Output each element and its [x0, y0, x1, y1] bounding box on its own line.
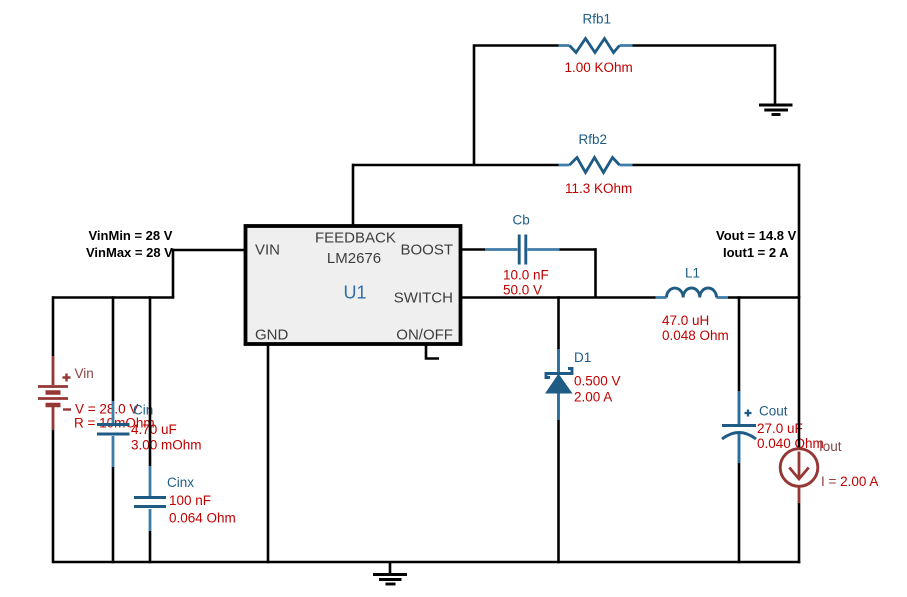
- wire VIN drop: [172, 249, 175, 298]
- wire Cin branch top: [112, 296, 115, 401]
- svg-text:FEEDBACK: FEEDBACK: [315, 230, 396, 247]
- svg-text:U1: U1: [344, 283, 367, 303]
- inductor L1: [656, 266, 729, 344]
- svg-text:1.00 KOhm: 1.00 KOhm: [565, 60, 633, 75]
- svg-text:Cb: Cb: [513, 213, 530, 228]
- ground (top right): [759, 105, 793, 115]
- wire D1 branch top: [557, 296, 560, 349]
- svg-text:LM2676: LM2676: [327, 250, 381, 267]
- svg-text:2.00 A: 2.00 A: [574, 390, 612, 405]
- svg-text:Vout = 14.8 V: Vout = 14.8 V: [716, 228, 797, 243]
- current source Iout: [780, 439, 878, 489]
- wire Cin branch bottom: [112, 467, 115, 563]
- svg-text:0.048 Ohm: 0.048 Ohm: [662, 328, 729, 343]
- diode D1: [546, 349, 621, 420]
- capacitor Cin: [97, 401, 202, 467]
- ground (bottom center): [373, 562, 407, 584]
- capacitor Cinx: [134, 466, 236, 531]
- wire Rfb2 left segment: [353, 164, 559, 167]
- svg-text:4.70 uF: 4.70 uF: [131, 422, 177, 437]
- wire D1 branch bottom: [557, 420, 560, 563]
- wire L1 to output node: [728, 296, 800, 299]
- svg-text:3.00 mOhm: 3.00 mOhm: [131, 438, 202, 453]
- svg-text:Cout: Cout: [759, 404, 788, 419]
- svg-text:11.3 KOhm: 11.3 KOhm: [565, 181, 632, 196]
- wire battery branch top: [52, 296, 55, 356]
- svg-text:100 nF: 100 nF: [169, 493, 211, 508]
- node Vout/Iout1 annotation: [716, 228, 797, 260]
- svg-text:10.0 nF: 10.0 nF: [503, 268, 549, 283]
- wire Iout branch bottom: [798, 486, 801, 503]
- svg-text:SWITCH: SWITCH: [394, 290, 453, 307]
- svg-text:27.0 uF: 27.0 uF: [757, 421, 803, 436]
- svg-text:0.064 Ohm: 0.064 Ohm: [169, 511, 236, 526]
- svg-text:BOOST: BOOST: [401, 242, 454, 259]
- wire SWITCH line: [460, 296, 656, 299]
- svg-text:I = 2.00 A: I = 2.00 A: [821, 474, 878, 489]
- svg-text:Rfb2: Rfb2: [579, 132, 608, 147]
- wire Cb drop to switch node: [594, 248, 597, 297]
- capacitor Cout: [722, 391, 824, 463]
- svg-text:Rfb1: Rfb1: [583, 11, 612, 26]
- wire Rfb1 right drop to ground: [774, 44, 777, 103]
- svg-text:Iout: Iout: [819, 439, 842, 454]
- IC U1 LM2676 buck regulator: [246, 226, 461, 344]
- wire bottom bus: [53, 561, 800, 564]
- wire Cb right segment: [560, 248, 596, 251]
- svg-text:50.0 V: 50.0 V: [503, 283, 542, 298]
- wire Rfb1 left drop to Rfb2 net: [473, 44, 476, 165]
- svg-text:Vin: Vin: [75, 366, 94, 381]
- wire input bus: [53, 296, 174, 299]
- svg-text:0.500 V: 0.500 V: [574, 374, 621, 389]
- svg-text:Cinx: Cinx: [167, 475, 194, 490]
- resistor Rfb2: [559, 132, 633, 196]
- wire ON/OFF pin hook: [426, 344, 439, 359]
- wire Rfb1 top-left segment: [474, 44, 559, 47]
- svg-text:VinMax = 28 V: VinMax = 28 V: [86, 245, 173, 260]
- wire Cout branch top: [738, 296, 741, 391]
- svg-text:Iout1 = 2 A: Iout1 = 2 A: [723, 245, 789, 260]
- node VinMin/VinMax annotation: [86, 228, 173, 260]
- wire Rfb2 right drop to output node: [798, 164, 801, 298]
- svg-text:VIN: VIN: [255, 242, 280, 259]
- wire Cout branch bottom: [738, 463, 741, 563]
- wire FEEDBACK pin riser: [352, 164, 355, 226]
- wire GND pin drop: [267, 344, 270, 563]
- wire Iout to bottom bus: [798, 503, 801, 563]
- wire Rfb2 right segment: [633, 164, 801, 167]
- svg-text:V = 28.0 V: V = 28.0 V: [75, 402, 138, 417]
- wire Iout branch top: [798, 296, 801, 449]
- svg-text:0.040 Ohm: 0.040 Ohm: [757, 436, 824, 451]
- wire BOOST pin segment: [460, 248, 485, 251]
- resistor Rfb1: [559, 11, 633, 75]
- wire battery branch bottom: [52, 430, 55, 563]
- capacitor Cb: [485, 213, 560, 298]
- battery Vin: [38, 356, 155, 431]
- svg-text:ON/OFF: ON/OFF: [396, 327, 453, 344]
- svg-text:47.0 uH: 47.0 uH: [662, 313, 709, 328]
- wire VIN pin: [173, 249, 246, 252]
- svg-text:GND: GND: [255, 327, 289, 344]
- wire Cinx branch bottom: [149, 531, 152, 563]
- svg-text:VinMin = 28 V: VinMin = 28 V: [89, 228, 173, 243]
- wire Cinx branch top: [149, 296, 152, 466]
- wire Rfb1 top-right segment: [633, 44, 776, 47]
- svg-text:L1: L1: [685, 266, 700, 281]
- svg-text:D1: D1: [574, 350, 591, 365]
